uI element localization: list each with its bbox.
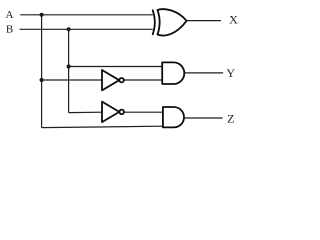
junction dot vertical 1 / NOT1 branch bbox=[40, 78, 44, 82]
wire B-branch to AND Y upper input bbox=[69, 66, 163, 68]
wire AND Y output to Y bbox=[184, 72, 223, 74]
svg-text:A: A bbox=[6, 9, 14, 21]
AND gate U5 (Z) body bbox=[163, 107, 184, 127]
svg-text:B: B bbox=[6, 24, 13, 36]
junction dot A / vertical 1 bbox=[40, 13, 44, 17]
NOT gate U2 bubble bbox=[119, 78, 123, 82]
wire NOT2 output to AND Z upper input bbox=[124, 111, 163, 113]
wire AND Z output to Z bbox=[184, 117, 222, 119]
NOT gate U3 triangle bbox=[102, 102, 119, 123]
AND gate U4 (Y) body bbox=[162, 62, 184, 84]
junction dot B / vertical 2 bbox=[67, 27, 71, 31]
XOR gate U1 input back arc bbox=[153, 10, 155, 34]
wire A horizontal bbox=[20, 14, 153, 16]
junction dot vertical 2 / AND Y upper branch bbox=[67, 64, 71, 68]
NOT gate U3 bubble bbox=[119, 110, 124, 115]
XOR gate U1 body bbox=[158, 9, 187, 35]
wire B-branch to NOT2 input bbox=[69, 111, 102, 113]
wire vertical 1 from A bbox=[41, 15, 43, 128]
svg-text:X: X bbox=[229, 13, 238, 27]
wire B horizontal bbox=[20, 28, 153, 30]
wire A-branch to NOT1 input bbox=[42, 79, 102, 81]
svg-text:Z: Z bbox=[227, 112, 234, 126]
wire vertical 2 from B bbox=[68, 29, 70, 112]
wire XOR output to X bbox=[187, 20, 221, 22]
wire NOT1 output to AND Y lower input bbox=[124, 79, 162, 81]
wire A-branch bottom run to AND Z lower input bbox=[42, 126, 163, 127]
NOT gate U2 triangle bbox=[102, 70, 119, 90]
svg-text:Y: Y bbox=[226, 66, 235, 80]
